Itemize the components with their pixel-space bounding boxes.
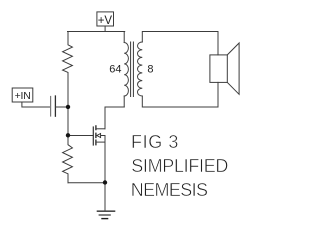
transformer T1 secondary winding	[138, 42, 143, 96]
node A junction dot	[66, 105, 70, 109]
wire secondary top	[142, 32, 218, 43]
transistor Q1 channel segments	[95, 126, 97, 145]
ground bar 2	[99, 214, 110, 216]
svg-text:+IN: +IN	[15, 91, 31, 102]
svg-text:+V: +V	[98, 15, 113, 27]
+IN box	[12, 88, 33, 102]
wire R1 to gate node	[67, 107, 69, 136]
transformer T1 core	[131, 42, 134, 97]
wire +V stub	[104, 26, 106, 32]
node source junction dot	[103, 180, 107, 184]
wire primary top lead	[123, 32, 125, 43]
speaker LS1 cone	[227, 43, 239, 94]
wire bottom (R2 to source node)	[68, 182, 105, 184]
wire gate	[68, 135, 93, 137]
svg-text:SIMPLIFIED: SIMPLIFIED	[131, 156, 228, 176]
ground bar 3	[102, 218, 108, 220]
wire primary bottom lead	[123, 96, 125, 107]
capacitor C1 right plate	[54, 96, 56, 116]
wire to ground	[104, 183, 106, 211]
svg-text:NEMESIS: NEMESIS	[131, 180, 208, 200]
wire speaker top lead	[217, 32, 219, 55]
node gate junction dot	[66, 133, 70, 137]
speaker LS1 body	[210, 55, 227, 83]
wire source down	[104, 136, 106, 183]
ground bar 1	[98, 210, 115, 212]
resistor R2	[63, 136, 73, 183]
+V box	[97, 12, 114, 26]
wire speaker bottom lead	[217, 82, 219, 107]
wire drain to transformer primary	[105, 107, 124, 129]
resistor R1	[63, 32, 73, 108]
capacitor C1 left plate	[50, 97, 52, 117]
transistor Q1 body line	[100, 135, 105, 137]
transistor Q1 source bar	[97, 141, 106, 143]
svg-text:FIG 3: FIG 3	[131, 132, 179, 152]
svg-text:64: 64	[109, 63, 121, 75]
wire C1 to node A	[56, 106, 68, 108]
wire top rail (primary side)	[68, 31, 125, 33]
wire +IN stub	[22, 102, 50, 107]
transistor Q1 gate bar	[92, 127, 94, 145]
wire secondary bottom	[142, 96, 218, 107]
transistor Q1 drain bar	[97, 128, 106, 130]
svg-text:8: 8	[147, 63, 153, 75]
transistor Q1 arrow	[97, 134, 101, 138]
transformer T1 primary winding	[124, 43, 128, 96]
